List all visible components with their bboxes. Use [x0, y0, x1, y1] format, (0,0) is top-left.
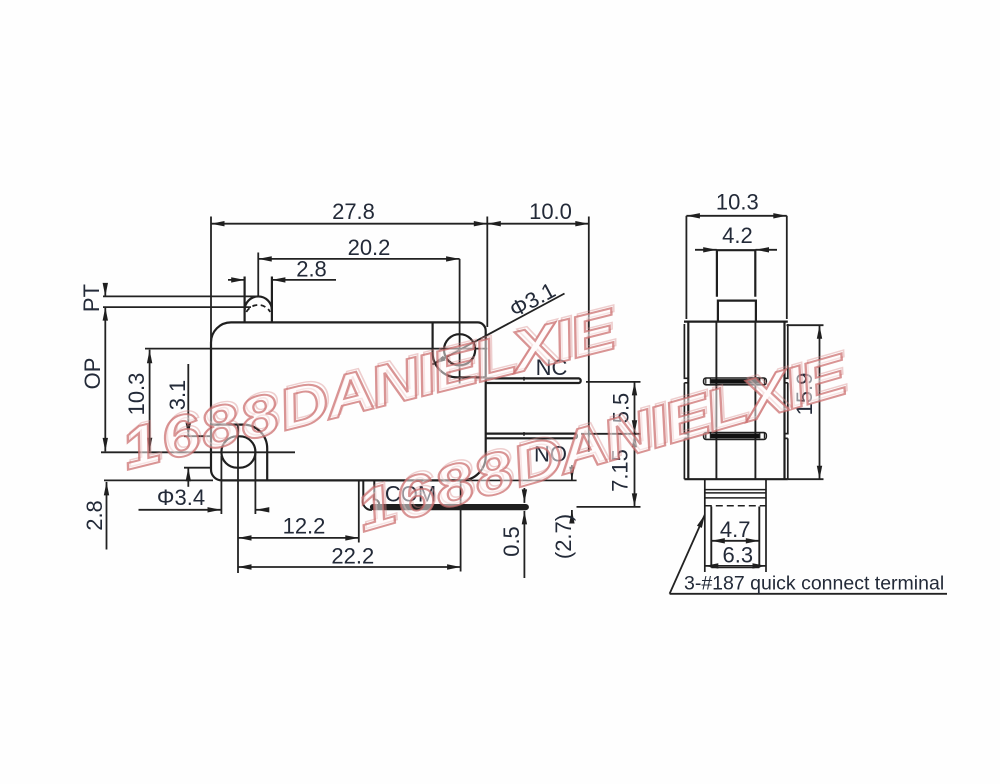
10.3 ext lines: [685, 216, 687, 319]
crimp dashed line: [705, 505, 766, 507]
plunger collar: [718, 301, 756, 322]
svg-text:PT: PT: [79, 284, 104, 312]
terminal blade bottom: [711, 567, 759, 569]
plunger button left side: [244, 277, 246, 323]
OP dim line: [104, 307, 106, 451]
svg-text:6.3: 6.3: [723, 543, 754, 568]
3.1 ext lower: [184, 467, 211, 469]
right edge extension (27.8/10.0 shared): [486, 217, 488, 328]
svg-text:10.0: 10.0: [529, 199, 572, 224]
NC blade notch: [523, 377, 525, 381]
NC bar fill: [711, 379, 760, 384]
dim 2.8 top: right tail: [272, 279, 336, 281]
dim 0.5 upper tail: [523, 488, 525, 503]
NC tip extension (10.0 right): [588, 217, 590, 453]
svg-text:2.8: 2.8: [296, 257, 327, 282]
NO bar end squares: [706, 433, 765, 438]
NO bar outline: [704, 433, 767, 440]
NC terminal blade: [486, 378, 581, 383]
left flange strips: [684, 324, 688, 479]
20.2 left extension (button centerline): [257, 253, 259, 296]
bottom edge extension line to the right: [462, 479, 577, 481]
dim 12.2: [238, 537, 359, 539]
3.1 dim lower tail: [187, 468, 189, 487]
mounting hole slot 3.4x3.1: [221, 436, 255, 467]
5.5/7.15 middle ext from NO tip: [581, 433, 641, 435]
COM terminal bent blade (filled): [363, 480, 379, 510]
svg-text:4.7: 4.7: [720, 517, 751, 542]
mounting hole top 3.1: [444, 334, 475, 365]
svg-text:10.3: 10.3: [716, 190, 759, 215]
PT dim upper tail: [104, 284, 106, 296]
plunger pressed position dashed dome: [246, 305, 270, 312]
dim 20.2: [258, 258, 459, 260]
dim 15.9: [819, 325, 821, 479]
svg-text:2.8: 2.8: [82, 500, 107, 531]
crimp section sides / 6.3 ext lines: [705, 479, 766, 572]
dim 4.7: [711, 540, 759, 542]
PT lower line (operating position): [103, 306, 251, 308]
mounting boss bottom-left: [211, 425, 267, 481]
3-#187 leader underline: [670, 593, 947, 595]
3.1 ext upper: [184, 435, 211, 437]
5.5 top ext from NC tip: [586, 381, 641, 383]
phi3.4 right arrow: [256, 509, 268, 511]
case bottom edge: [684, 478, 787, 480]
7.15 bottom ext: [577, 506, 641, 508]
svg-text:12.2: 12.2: [283, 514, 326, 539]
15.9 ext top: [787, 324, 824, 326]
left edge extension up: [210, 217, 212, 345]
central column right: [754, 322, 756, 480]
15.9 ext bottom: [788, 478, 824, 480]
phi3.4 dim tail + left arrow: [139, 509, 222, 511]
svg-text:4.2: 4.2: [722, 223, 753, 248]
dim 7.15: [634, 434, 636, 507]
bottom edge extension left (2.8 ref): [104, 479, 213, 481]
svg-text:OP: OP: [80, 358, 105, 390]
svg-text:3-#187 quick connect terminal: 3-#187 quick connect terminal: [684, 573, 944, 595]
12.2 right ext: [358, 482, 360, 543]
dim 10.0: [487, 223, 589, 225]
dim 2.7 lower tail: [571, 510, 573, 521]
right flange strips: [785, 324, 788, 479]
switch body outline (side view): [211, 322, 486, 480]
dim 4.2: left tail: [695, 249, 717, 251]
plunger upper section: [717, 250, 755, 297]
svg-text:20.2: 20.2: [348, 235, 391, 260]
NO terminal blade: [486, 434, 577, 439]
top hole horizontal centerline: [145, 348, 487, 350]
PT upper line (free position): [103, 295, 257, 297]
terminal blade front sides: [711, 507, 759, 568]
plunger button right side: [271, 277, 273, 323]
dim 5.5: [634, 382, 636, 434]
phi3.4 ext left: [220, 456, 222, 514]
svg-text:27.8: 27.8: [332, 199, 375, 224]
crimp lines: [705, 490, 766, 498]
dim 10.3 left: [149, 350, 151, 452]
NO bar fill: [711, 434, 760, 439]
dim 2.7 upper tail: [571, 465, 573, 480]
dim 10.3 right view: [686, 215, 786, 217]
top hole vertical centerline / 20.2 ext: [459, 259, 461, 384]
central column left: [715, 322, 717, 480]
COM blade thick bar: [373, 504, 526, 510]
3.1 dim upper tail: [187, 364, 189, 436]
dim 2.8 left vertical: [106, 482, 108, 550]
case right main edge: [783, 322, 785, 480]
mounting boss top-right: [433, 322, 486, 377]
svg-text:Φ3.4: Φ3.4: [157, 485, 205, 510]
dim 6.3: [705, 565, 766, 567]
dim 22.2: [238, 566, 461, 568]
NC bar outline: [704, 378, 767, 385]
case top edge: [684, 321, 788, 323]
bottom hole vertical centerline: [237, 425, 239, 573]
phi3.1 leader: [433, 294, 565, 365]
dim 4.2: right tail: [756, 249, 778, 251]
NC bar end squares: [706, 378, 765, 383]
dim 27.8: [211, 223, 487, 225]
svg-text:0.5: 0.5: [499, 526, 524, 557]
svg-text:(2.7): (2.7): [551, 514, 576, 559]
NO blade notch: [523, 432, 525, 436]
3-#187 leader diagonal: [670, 515, 705, 594]
plunger button dome: [245, 296, 272, 310]
phi3.4 ext right: [254, 454, 256, 514]
22.2 right ext: [460, 482, 462, 572]
bottom hole horizontal centerline: [101, 451, 295, 453]
dim 2.8 top: left tail: [228, 279, 245, 281]
svg-text:22.2: 22.2: [331, 544, 374, 569]
case left main edge: [687, 322, 689, 480]
dim 0.5 lower tail: [523, 511, 525, 578]
